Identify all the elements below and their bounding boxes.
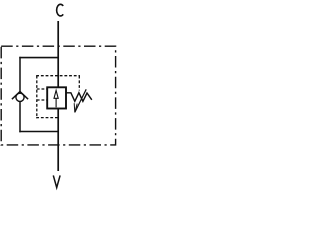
relief valve envelope box [47, 87, 66, 108]
pilot line: dashed top horizontal [36, 75, 80, 77]
wire: main vertical line C to valve box [57, 21, 59, 87]
check valve (ball and seat) [12, 92, 28, 102]
wire: bottom branch horizontal [19, 131, 58, 133]
wire: top branch horizontal to left [19, 57, 58, 59]
adjustment arrow across spring [74, 89, 86, 112]
wire: main vertical line valve box to V [57, 108, 59, 171]
enclosure (chain-line boundary box) [1, 46, 115, 145]
pilot line: dashed bottom horizontal to main line [36, 117, 58, 119]
pilot line: dashed right vertical (to spring) [78, 76, 80, 91]
flow arrow inside valve box [54, 90, 58, 107]
port label V [53, 175, 60, 187]
pilot line: dashed stub into valve box upper [37, 88, 47, 90]
port label C [57, 4, 64, 16]
pilot line: dashed left vertical [36, 76, 38, 119]
wire: left branch vertical upper (to check valve) [19, 57, 21, 93]
pilot line: dashed stub into valve box lower [37, 99, 47, 101]
wire: left branch vertical lower [19, 101, 21, 132]
spring (zigzag) [66, 93, 91, 102]
